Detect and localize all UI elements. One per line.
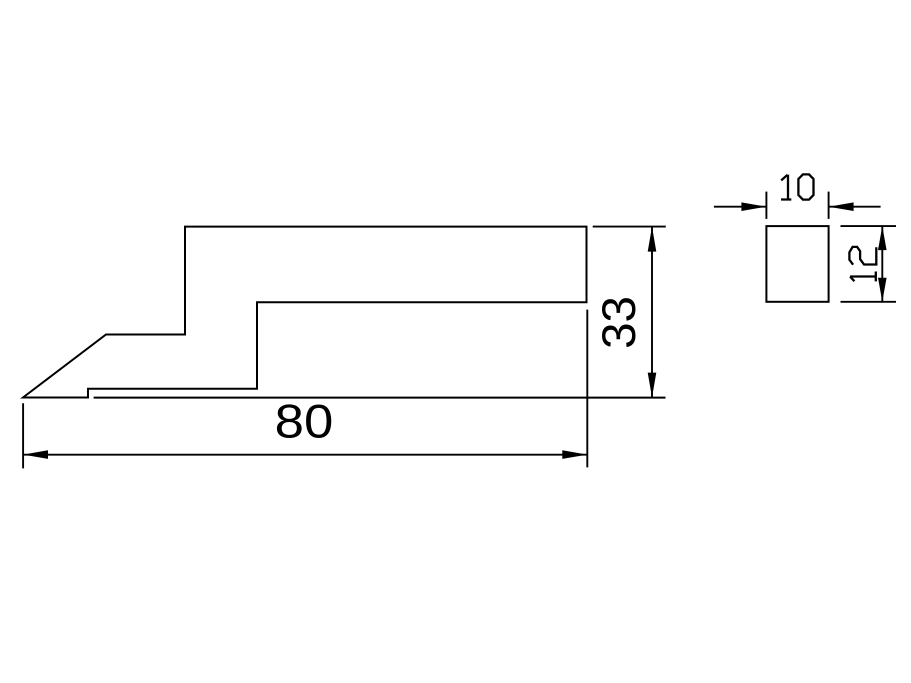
dimension 10 dimension line right tail <box>829 206 881 208</box>
dimension 33 dimension line <box>651 227 653 398</box>
dimension 10 arrow right <box>829 202 854 211</box>
dimension 10 value label <box>781 174 814 199</box>
dimension 33 arrow top <box>648 227 657 252</box>
dimension 10 extension line right <box>828 192 830 219</box>
dimension 10 dimension line left tail <box>714 206 767 208</box>
dimension 12 value label <box>849 247 876 282</box>
dimension 80 arrow left <box>23 450 48 459</box>
part profile outline (side view) <box>23 227 587 398</box>
svg-text:33: 33 <box>593 296 646 349</box>
dimension 12 arrow bottom <box>878 278 887 302</box>
svg-text:80: 80 <box>275 395 334 448</box>
dimension 80 extension line left <box>22 403 24 468</box>
dimension 80 dimension line <box>23 454 587 456</box>
dimension 80 extension line right <box>586 310 588 468</box>
part bottom edge line <box>94 397 666 399</box>
dimension 33 arrow bottom <box>648 373 657 398</box>
dimension 10 arrow left <box>741 202 766 211</box>
dimension 80 arrow right <box>562 450 587 459</box>
dimension 33 extension line top <box>593 226 666 228</box>
dimension 12 extension line top <box>841 225 897 227</box>
dimension 12 arrow top <box>878 226 887 250</box>
dimension 12 dimension line <box>881 226 883 302</box>
dimension 10 extension line left <box>765 192 767 219</box>
end view rectangle <box>766 226 828 302</box>
dimension 12 extension line bottom <box>841 301 897 303</box>
